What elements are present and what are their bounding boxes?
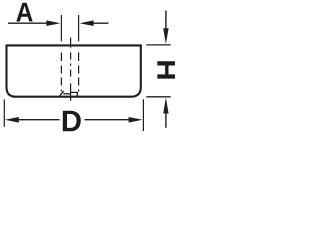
dim H bottom arrow line xyxy=(165,113,167,128)
cap body outline xyxy=(7,45,141,96)
bottom center detail: left shelf xyxy=(63,93,70,95)
dim H label (rotated) xyxy=(157,61,177,78)
dim A left line xyxy=(8,22,49,24)
dim H top extension line xyxy=(146,44,170,46)
dim A right line xyxy=(92,22,109,24)
dim D label xyxy=(63,111,81,132)
dim H top arrow line xyxy=(165,11,167,30)
dim D extension line left xyxy=(3,99,5,127)
dim D left arrowhead xyxy=(5,117,19,123)
dim H bottom arrowhead xyxy=(163,98,168,114)
dim D left line xyxy=(17,119,60,121)
dim A extension line right xyxy=(78,15,80,41)
dim A extension line left xyxy=(60,15,62,41)
dim H bottom extension line xyxy=(146,96,170,98)
dim H top arrowhead xyxy=(163,28,168,44)
dim D right arrowhead xyxy=(129,117,143,123)
dim A left arrowhead xyxy=(46,20,60,26)
dim A label xyxy=(16,3,32,22)
bottom center detail: right shelf xyxy=(71,92,78,96)
bottom center detail: left chamfer xyxy=(60,91,64,96)
hidden hole line right xyxy=(78,53,80,92)
center line xyxy=(70,38,72,101)
dim D right line xyxy=(85,119,130,121)
dim D extension line right xyxy=(142,99,144,131)
dim A right arrowhead xyxy=(80,20,94,26)
hidden hole line left xyxy=(60,53,62,92)
